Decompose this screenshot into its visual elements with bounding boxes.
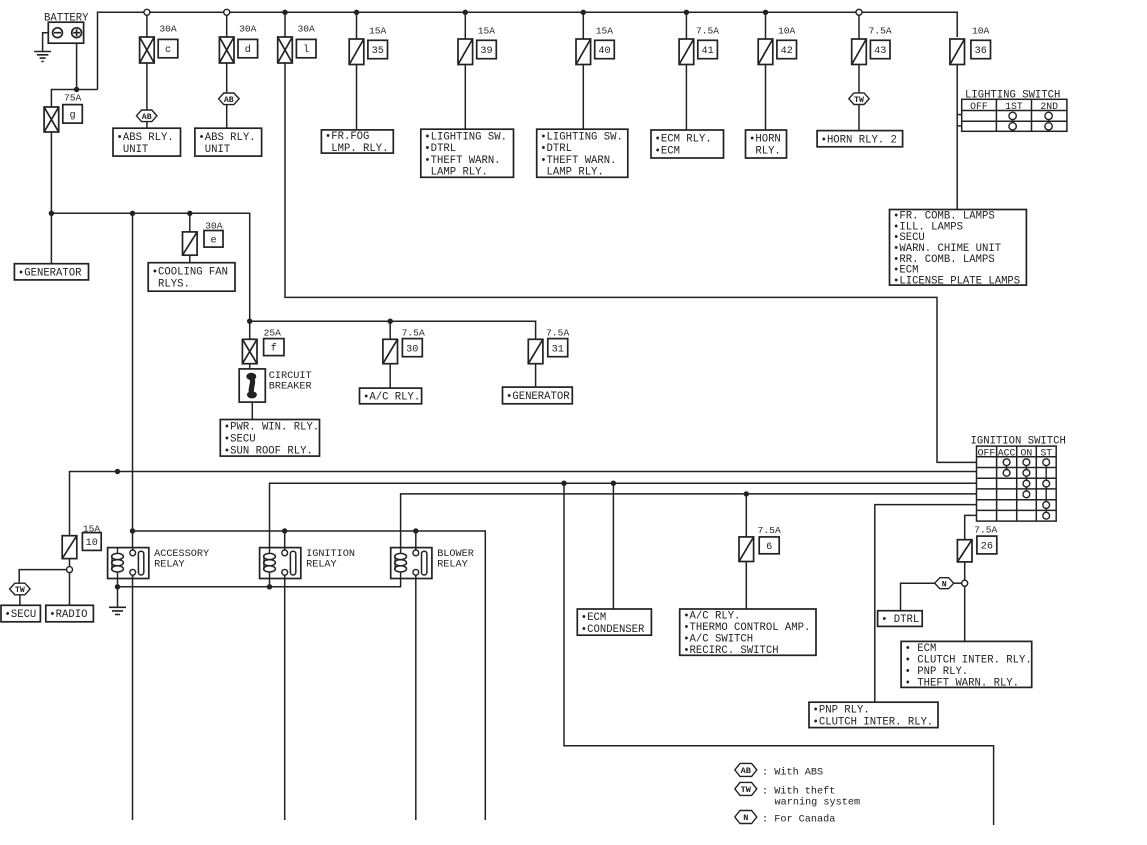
ground (battery) bbox=[34, 52, 51, 62]
wire: fuse 41 to load bbox=[685, 65, 687, 131]
svg-text:N: N bbox=[942, 580, 947, 589]
wire: accessory distribution bus bbox=[250, 321, 536, 339]
wire: accessory branch to lower right bbox=[564, 483, 994, 825]
fusible link c (30A) bbox=[140, 37, 155, 63]
wire: fuse 6 to A/C loads bbox=[745, 562, 747, 610]
wire: link c to AB bbox=[146, 63, 148, 110]
legend symbol AB bbox=[735, 763, 757, 776]
svg-text:75A: 75A bbox=[64, 93, 82, 104]
wire: fuse 39 to load bbox=[464, 65, 466, 130]
wire: branch to TW / SECU bbox=[19, 570, 66, 584]
svg-text:15A: 15A bbox=[478, 26, 496, 37]
svg-text:42: 42 bbox=[781, 46, 793, 57]
junction ignition relay contact bbox=[282, 528, 287, 533]
svg-text:30A: 30A bbox=[239, 24, 257, 35]
svg-text:RELAY: RELAY bbox=[306, 560, 337, 571]
svg-text:•ECM RLY.: •ECM RLY. bbox=[655, 134, 712, 146]
wire: drop to ECM/condenser bbox=[612, 483, 614, 609]
svg-text:10: 10 bbox=[86, 538, 98, 549]
svg-text:RLY.: RLY. bbox=[749, 146, 781, 158]
label box 10 bbox=[82, 533, 101, 551]
svg-text:6: 6 bbox=[766, 542, 772, 553]
wire: fuse 40 to load bbox=[582, 65, 584, 130]
label box 35 bbox=[368, 40, 388, 58]
junction ignition coil ground bbox=[267, 584, 272, 589]
svg-text:•THEFT WARN.: •THEFT WARN. bbox=[424, 155, 500, 167]
svg-text:•A/C SWITCH: •A/C SWITCH bbox=[683, 634, 753, 646]
junction fuse 30 bbox=[388, 319, 393, 324]
svg-text:40: 40 bbox=[598, 46, 610, 57]
option symbol AB (with ABS) bbox=[219, 93, 240, 105]
svg-text:•ECM: •ECM bbox=[581, 612, 606, 624]
svg-text:l: l bbox=[303, 44, 309, 56]
ignition switch ACC contacts bbox=[1006, 462, 1008, 473]
svg-text:10A: 10A bbox=[778, 26, 796, 37]
svg-text:f: f bbox=[271, 343, 277, 355]
svg-text:ACCESSORY: ACCESSORY bbox=[154, 549, 209, 560]
junction blower relay contact bbox=[413, 528, 418, 533]
ignition switch ST contacts bbox=[1045, 462, 1047, 516]
wire: bus to fuse 39 bbox=[464, 12, 466, 39]
svg-text:AB: AB bbox=[741, 766, 751, 776]
load box: ABS RLY. UNIT (1) bbox=[113, 128, 181, 156]
wire: to RADIO bbox=[69, 573, 71, 606]
label box 31 bbox=[548, 339, 568, 357]
svg-text:RELAY: RELAY bbox=[437, 560, 468, 571]
svg-text:• THEFT WARN. RLY.: • THEFT WARN. RLY. bbox=[905, 677, 1019, 689]
svg-text:•ECM: •ECM bbox=[655, 146, 680, 158]
svg-text:•SUN ROOF RLY.: •SUN ROOF RLY. bbox=[224, 446, 313, 458]
load box: lighting sw / dtrl / theft warn lamp rly bbox=[421, 129, 514, 178]
wire: bus to link d bbox=[226, 15, 228, 37]
svg-text:AB: AB bbox=[142, 113, 152, 122]
fuse 42 (10A) bbox=[758, 39, 773, 65]
svg-text:OFF: OFF bbox=[970, 101, 988, 112]
lighting switch table bbox=[962, 99, 1067, 131]
wire: link f to circuit breaker bbox=[249, 364, 251, 369]
svg-text:•A/C RLY.: •A/C RLY. bbox=[363, 392, 420, 404]
svg-text:• PNP RLY.: • PNP RLY. bbox=[905, 666, 969, 678]
junction accessory relay coil bbox=[115, 469, 120, 474]
svg-text:LAMP RLY.: LAMP RLY. bbox=[540, 167, 604, 179]
junction accessory relay contact bbox=[130, 528, 135, 533]
wire: ON row feed (blower relay coil) bbox=[401, 494, 977, 548]
svg-text:: With ABS: : With ABS bbox=[762, 766, 823, 778]
wire: bus to fuse 40 bbox=[582, 12, 584, 39]
label box d bbox=[238, 39, 258, 57]
load box: COOLING FAN RLYS. bbox=[148, 263, 235, 292]
svg-text:7.5A: 7.5A bbox=[546, 328, 569, 339]
fuse 31 (7.5A) bbox=[528, 339, 543, 363]
fuse 40 (15A) bbox=[576, 39, 591, 65]
label box l bbox=[296, 39, 316, 57]
junction condenser branch bbox=[561, 481, 566, 486]
svg-text:CIRCUIT: CIRCUIT bbox=[269, 371, 312, 382]
load box: ECM / clutch / PNP / theft warn bbox=[901, 641, 1032, 689]
svg-text:15A: 15A bbox=[596, 26, 614, 37]
svg-text:•CLUTCH INTER. RLY.: •CLUTCH INTER. RLY. bbox=[813, 717, 934, 729]
wire: bus to fuse 41 bbox=[685, 12, 687, 39]
wire: bus to blower relay contact bbox=[415, 531, 417, 551]
tap fusible link d bbox=[224, 9, 230, 15]
load box: HORN RLY. bbox=[746, 130, 787, 158]
fuse 26 (7.5A) bbox=[957, 540, 972, 562]
fusible link g (75A) bbox=[44, 107, 59, 132]
svg-text:• CLUTCH INTER. RLY.: • CLUTCH INTER. RLY. bbox=[905, 654, 1032, 666]
svg-text:IGNITION: IGNITION bbox=[306, 549, 355, 560]
wire: bus to link c bbox=[146, 15, 148, 37]
junction ECM/condenser drop bbox=[611, 481, 616, 486]
wire: fuse 30 to A/C relay bbox=[389, 364, 391, 388]
relay: IGNITION RELAY bbox=[260, 548, 301, 579]
option symbol AB (with ABS) bbox=[136, 110, 157, 122]
svg-text:UNIT: UNIT bbox=[198, 144, 230, 156]
load box: GENERATOR (2) bbox=[503, 387, 573, 404]
circuit breaker bbox=[239, 369, 265, 402]
load box: lighting sw / dtrl / theft warn lamp rly (2) bbox=[537, 129, 628, 178]
load box: DTRL bbox=[878, 611, 923, 627]
label box 42 bbox=[777, 40, 797, 58]
svg-text:•DTRL: •DTRL bbox=[424, 143, 456, 155]
svg-text:•RADIO: •RADIO bbox=[49, 609, 87, 621]
relay: BLOWER RELAY bbox=[391, 548, 432, 579]
label box 36 bbox=[971, 40, 991, 58]
wire: bus to fuse 43 bbox=[858, 15, 860, 39]
wire: ignition coil to ground bus bbox=[269, 579, 271, 587]
wire: circuit breaker to loads bbox=[251, 402, 253, 419]
svg-text:•PNP RLY.: •PNP RLY. bbox=[813, 705, 870, 717]
svg-text:•ABS RLY.: •ABS RLY. bbox=[198, 132, 255, 144]
junction fuse 41 bbox=[684, 10, 689, 15]
wire: main battery feed bus bbox=[98, 12, 958, 89]
svg-text:10A: 10A bbox=[972, 26, 990, 37]
svg-text:UNIT: UNIT bbox=[117, 144, 149, 156]
wire: stub to lighting switch 1st row bbox=[957, 114, 962, 116]
label box 39 bbox=[477, 40, 497, 58]
wire: bus to fuse e bbox=[189, 213, 191, 232]
load box: pwr win / secu / sun roof bbox=[220, 420, 319, 458]
fuse e (30A) bbox=[183, 232, 198, 255]
ignition switch table bbox=[977, 446, 1057, 521]
load box: A/C group bbox=[680, 609, 816, 657]
label box e bbox=[204, 231, 223, 248]
svg-text:TW: TW bbox=[854, 96, 864, 105]
junction fuse 6 bbox=[744, 491, 749, 496]
svg-text:43: 43 bbox=[874, 46, 886, 57]
svg-text:• ECM: • ECM bbox=[905, 643, 937, 655]
svg-text:RLYS.: RLYS. bbox=[152, 279, 190, 291]
label box 26 bbox=[977, 536, 997, 554]
wire: ignition relay output bbox=[284, 575, 286, 820]
wire: fuse 35 to load bbox=[356, 65, 358, 130]
fuse 36 (10A) bbox=[950, 39, 965, 65]
wire: TW to SECU bbox=[19, 595, 21, 606]
load box: lamps group bbox=[890, 210, 1027, 288]
svg-text:7.5A: 7.5A bbox=[696, 26, 719, 37]
wire: ST row feed to PNP relay box bbox=[875, 505, 977, 703]
svg-text:•PWR. WIN. RLY.: •PWR. WIN. RLY. bbox=[224, 422, 319, 434]
wire: fuse 26 down bbox=[964, 562, 966, 581]
fuse 39 (15A) bbox=[458, 39, 473, 65]
svg-text:31: 31 bbox=[552, 344, 564, 355]
svg-text:RELAY: RELAY bbox=[154, 560, 185, 571]
label box g bbox=[63, 105, 83, 124]
fusible link f (25A) bbox=[242, 339, 257, 363]
wire: battery negative to ground bbox=[43, 33, 49, 51]
svg-text:TW: TW bbox=[741, 785, 752, 795]
svg-text:7.5A: 7.5A bbox=[402, 328, 425, 339]
svg-text:26: 26 bbox=[981, 542, 993, 553]
svg-text:e: e bbox=[210, 235, 216, 246]
svg-text:7.5A: 7.5A bbox=[974, 524, 997, 535]
junction fusible link f bbox=[247, 319, 252, 324]
wire: fuse 36 to lighting switch and lamps bbox=[956, 65, 958, 210]
lighting switch contacts 2ND column bbox=[1048, 116, 1050, 126]
svg-text:ST: ST bbox=[1040, 447, 1052, 458]
svg-text:•SECU: •SECU bbox=[5, 609, 37, 621]
svg-text:•GENERATOR: •GENERATOR bbox=[506, 391, 570, 403]
wire: accessory relay output bbox=[132, 575, 134, 820]
svg-text:30A: 30A bbox=[159, 24, 177, 35]
svg-text:: With theft: : With theft bbox=[762, 785, 835, 797]
label box 30 bbox=[402, 339, 422, 357]
wire: N to DTRL bbox=[901, 583, 935, 611]
svg-text:: For Canada: : For Canada bbox=[762, 813, 835, 825]
svg-text:•RECIRC. SWITCH: •RECIRC. SWITCH bbox=[683, 645, 778, 657]
fusible link d (30A) bbox=[219, 37, 234, 63]
svg-text:warning system: warning system bbox=[775, 797, 861, 809]
wire: accessory coil to ground bus bbox=[117, 579, 119, 587]
label box 43 bbox=[870, 40, 890, 58]
junction ground bus bbox=[115, 584, 120, 589]
svg-text:•ABS RLY.: •ABS RLY. bbox=[117, 132, 174, 144]
svg-text:•HORN: •HORN bbox=[749, 134, 781, 146]
svg-text:TW: TW bbox=[15, 586, 25, 595]
svg-text:7.5A: 7.5A bbox=[869, 26, 892, 37]
wire: TW to horn rly 2 bbox=[858, 105, 860, 131]
wire: feed to relay contacts bbox=[132, 213, 134, 551]
wire: bus to fuse 30 bbox=[389, 321, 391, 339]
svg-text:•GENERATOR: •GENERATOR bbox=[18, 268, 82, 280]
legend symbol TW bbox=[735, 782, 757, 795]
svg-text:c: c bbox=[165, 45, 171, 56]
wire: fuse 43 to TW bbox=[858, 65, 860, 94]
wire: AB to ABS relay unit bbox=[146, 122, 148, 129]
fuse 35 (15A) bbox=[349, 39, 364, 65]
svg-text:AB: AB bbox=[224, 96, 234, 105]
legend symbol N bbox=[735, 811, 757, 824]
label box 40 bbox=[595, 40, 615, 58]
svg-text:•A/C RLY.: •A/C RLY. bbox=[683, 611, 740, 623]
wire: bus to fuse 42 bbox=[765, 12, 767, 39]
wire: ACC row feed to fuse 10 bbox=[70, 472, 977, 536]
load box: RADIO bbox=[46, 605, 94, 622]
junction generator branch bbox=[49, 211, 54, 216]
tap fusible link c bbox=[144, 9, 150, 15]
ground (relay coils) bbox=[109, 607, 126, 614]
wire: middle distribution bus bbox=[51, 213, 249, 339]
option symbol N (for Canada) bbox=[935, 578, 954, 590]
wire: fuse 42 to load bbox=[765, 65, 767, 131]
svg-text:1ST: 1ST bbox=[1005, 101, 1023, 112]
ignition switch ON contacts bbox=[1025, 462, 1027, 494]
label box 6 bbox=[759, 537, 779, 554]
relay: ACCESSORY RELAY bbox=[108, 548, 149, 579]
junction fusible link l bbox=[282, 10, 287, 15]
svg-text:OFF: OFF bbox=[978, 447, 996, 458]
wire: to ECM group box bbox=[964, 586, 966, 641]
option symbol TW (theft warning) bbox=[849, 93, 869, 105]
wire: battery positive feed bbox=[77, 43, 98, 89]
wire: fusible link g to bus / generator bbox=[50, 132, 52, 264]
load box: ECM / CONDENSER bbox=[577, 609, 651, 636]
wire: to fusible link g bbox=[51, 90, 76, 108]
load box: GENERATOR bbox=[14, 264, 88, 280]
load box: FR.FOG LMP. RLY. bbox=[321, 130, 393, 155]
junction fuse 40 bbox=[581, 10, 586, 15]
svg-text:35: 35 bbox=[372, 46, 384, 57]
svg-text:39: 39 bbox=[480, 46, 492, 57]
wire: stub to lighting switch 2nd row bbox=[957, 125, 962, 127]
fuse 41 (7.5A) bbox=[679, 39, 694, 65]
svg-text:•THERMO CONTROL AMP.: •THERMO CONTROL AMP. bbox=[683, 622, 810, 634]
svg-text:•COOLING FAN: •COOLING FAN bbox=[152, 267, 228, 279]
svg-text:30: 30 bbox=[406, 344, 418, 355]
tap canada branch bbox=[962, 580, 968, 586]
load box: ABS RLY. UNIT (2) bbox=[195, 128, 262, 156]
svg-text:7.5A: 7.5A bbox=[758, 525, 781, 536]
wire: ground bus to ground bbox=[117, 587, 119, 607]
load box: HORN RLY. 2 bbox=[817, 131, 903, 147]
tap fuse 43 bbox=[856, 9, 862, 15]
svg-text:• DTRL: • DTRL bbox=[881, 614, 919, 626]
svg-text:•LICENSE PLATE LAMPS: •LICENSE PLATE LAMPS bbox=[893, 275, 1020, 287]
wire: link l to ignition switch OFF row bbox=[285, 63, 977, 462]
wire: link d to AB bbox=[226, 63, 228, 93]
svg-text:•CONDENSER: •CONDENSER bbox=[581, 624, 645, 636]
junction fuse 39 bbox=[463, 10, 468, 15]
svg-text:•LIGHTING SW.: •LIGHTING SW. bbox=[424, 131, 507, 143]
svg-text:LAMP RLY.: LAMP RLY. bbox=[424, 167, 488, 179]
load box: SECU bbox=[1, 605, 40, 622]
svg-text:g: g bbox=[69, 110, 75, 121]
fusible link l (30A) bbox=[278, 37, 293, 63]
battery bbox=[48, 22, 83, 43]
wire: blower relay output bbox=[415, 575, 417, 820]
svg-text:BATTERY: BATTERY bbox=[44, 12, 89, 24]
svg-text:•HORN RLY. 2: •HORN RLY. 2 bbox=[821, 134, 897, 146]
svg-text:d: d bbox=[245, 44, 251, 56]
junction fuse 35 bbox=[354, 10, 359, 15]
wire: bus to link l bbox=[284, 12, 286, 37]
wire: bus to ignition relay contact bbox=[284, 531, 286, 551]
tap radio branch bbox=[67, 567, 73, 573]
svg-text:30A: 30A bbox=[297, 24, 315, 35]
svg-text:BREAKER: BREAKER bbox=[269, 382, 312, 393]
svg-text:LMP. RLY.: LMP. RLY. bbox=[325, 143, 389, 155]
wire: bus to fuse 6 bbox=[745, 494, 747, 537]
junction battery feed bbox=[74, 87, 79, 92]
junction relay contact feed bbox=[130, 211, 135, 216]
svg-text:•THEFT WARN.: •THEFT WARN. bbox=[540, 155, 616, 167]
label box f bbox=[264, 339, 284, 356]
svg-text:BLOWER: BLOWER bbox=[437, 549, 474, 560]
load box: ECM RLY. / ECM bbox=[651, 130, 724, 158]
fuse 10 (15A) bbox=[62, 536, 77, 559]
svg-text:•FR.FOG: •FR.FOG bbox=[325, 131, 370, 143]
wire: ST row to fuse 26 bbox=[965, 515, 977, 539]
svg-text:ON: ON bbox=[1021, 447, 1033, 458]
wire: AB to ABS relay unit 2 bbox=[226, 105, 228, 129]
svg-text:•LIGHTING SW.: •LIGHTING SW. bbox=[540, 131, 623, 143]
wire: relay coil ground bus bbox=[118, 579, 401, 587]
load box: A/C RLY. bbox=[360, 388, 422, 404]
wire: bus to fuse 35 bbox=[356, 12, 358, 39]
wire: ON row feed (ignition relay coil) bbox=[270, 483, 977, 547]
svg-text:25A: 25A bbox=[264, 328, 282, 339]
label box 41 bbox=[698, 40, 718, 58]
load box: PNP / CLUTCH INTER. bbox=[809, 702, 938, 728]
label box c bbox=[158, 39, 178, 57]
fuse 30 (7.5A) bbox=[383, 339, 398, 363]
svg-text:15A: 15A bbox=[369, 26, 387, 37]
wire: fuse 10 down bbox=[69, 559, 71, 567]
option symbol TW (theft warning) bbox=[10, 583, 31, 595]
junction fuse e bbox=[187, 211, 192, 216]
lighting switch contacts 1ST column bbox=[1012, 116, 1014, 126]
svg-text:ACC: ACC bbox=[998, 447, 1016, 458]
fuse 43 (7.5A) bbox=[852, 39, 867, 65]
wire: fuse 31 to generator bbox=[535, 364, 537, 387]
svg-text:41: 41 bbox=[701, 46, 713, 57]
svg-text:•SECU: •SECU bbox=[224, 434, 256, 446]
svg-text:N: N bbox=[743, 813, 748, 823]
junction fuse 42 bbox=[763, 10, 768, 15]
wire: fuse e to cooling fan relays bbox=[189, 255, 191, 263]
svg-text:36: 36 bbox=[975, 46, 987, 57]
fuse 6 (7.5A) bbox=[739, 537, 754, 562]
wire: relay contact supply bus bbox=[133, 531, 486, 820]
wire: N to tap bbox=[954, 582, 962, 584]
svg-text:•DTRL: •DTRL bbox=[540, 143, 572, 155]
svg-text:2ND: 2ND bbox=[1040, 101, 1058, 112]
